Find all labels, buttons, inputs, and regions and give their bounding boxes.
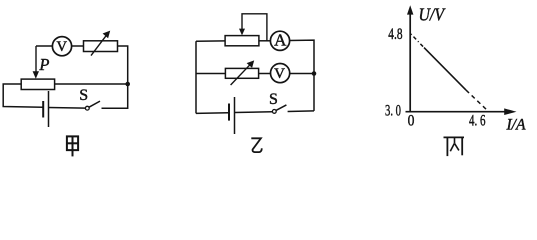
svg-text:V: V [57,39,68,55]
battery B2 long plate [234,97,236,134]
wire potentiometer right end to junction [55,83,128,85]
switch S1 pivot [85,106,89,110]
wire slider stem (circuit jia) [35,46,37,72]
wire switch to right rail (yi) [288,110,314,113]
wire rheostat R3 to voltmeter V2 [259,73,271,75]
wire slider loop [242,14,267,41]
svg-text:0: 0 [408,113,415,130]
y-axis (graph bing) [409,14,411,112]
svg-text:I/A: I/A [506,117,526,134]
voltmeter V2 [271,64,290,83]
wire battery to switch (yi) [235,111,273,114]
wire rheostat R2 to ammeter [259,40,271,42]
wire battery to switch [49,107,86,110]
wire potentiometer left end down to battery [3,84,43,107]
battery B1 long plate [48,91,50,127]
node junction (yi) [312,71,317,76]
svg-text:4. 6: 4. 6 [469,113,486,130]
battery B2 short plate [228,104,230,121]
wire top-left to voltmeter [36,45,53,47]
x-axis (graph bing) [406,111,506,113]
switch S1 lever [89,101,100,107]
wire right rail lower [313,74,315,111]
rheostat R3 [225,68,258,78]
node junction (jia) [125,82,130,87]
rheostat R1 [84,41,118,52]
voltmeter V1 [52,37,71,56]
svg-text:P: P [38,55,49,74]
wire bottom-left to battery [196,112,229,115]
label yi (Chinese) [251,138,261,152]
switch S2 lever [276,105,286,111]
switch S2 pivot [272,110,276,114]
svg-text:A: A [274,31,287,50]
potentiometer P [21,79,54,89]
label bing (Chinese) [444,137,465,156]
svg-text:S: S [79,87,88,104]
wire right rail down to bottom [102,84,128,108]
svg-text:S: S [269,91,278,108]
wire left rail (circuit yi) [195,41,197,113]
wire voltmeter to rheostat R1 [71,45,83,47]
wire top-left to rheostat R2 [196,40,225,42]
svg-text:U/V: U/V [419,5,447,25]
characteristic line dashed end [466,90,489,111]
wire rheostat R1 to right rail [118,46,128,84]
rheostat R1 arrow [91,36,106,56]
svg-text:3. 0: 3. 0 [385,102,401,119]
wire middle branch left [196,73,225,75]
wire ammeter to right rail [289,40,314,73]
battery B1 short plate [42,101,44,118]
label jia (Chinese) [67,136,78,156]
svg-text:V: V [274,66,285,82]
slider arrow onto rheostat R2 [239,29,245,36]
svg-text:4.8: 4.8 [388,26,402,43]
characteristic line dashed start [411,34,424,48]
rheostat R3 arrow [231,64,251,85]
slider arrow onto potentiometer P [33,71,39,79]
characteristic line solid [424,48,466,91]
ammeter A1 [270,31,289,50]
rheostat R2 [225,36,259,46]
wire voltmeter V2 to right rail [289,73,314,75]
